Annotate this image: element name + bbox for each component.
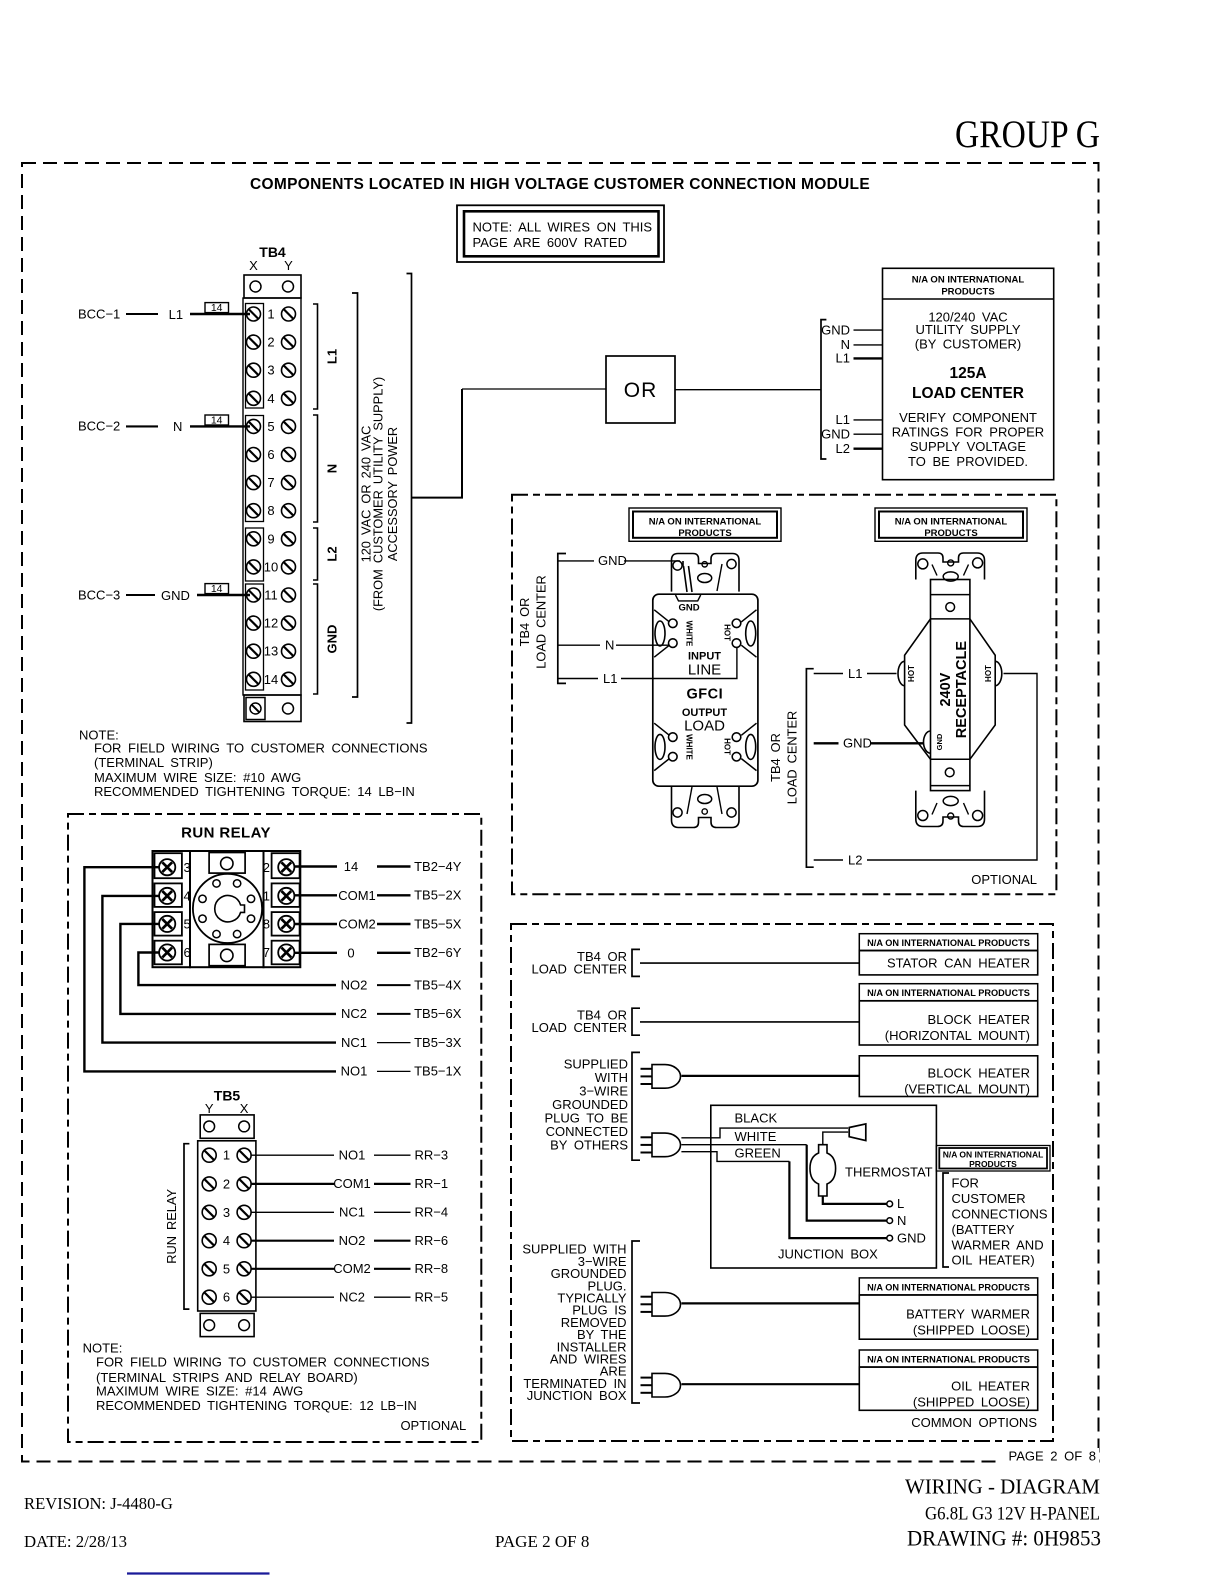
wire TB5 NC1 to RR-4 — [251, 1205, 448, 1220]
wire bracket to OR box — [412, 389, 607, 498]
svg-text:RECOMMENDED TIGHTENING TORQUE:: RECOMMENDED TIGHTENING TORQUE: 12 LB−IN — [96, 1398, 417, 1413]
wire black — [681, 1111, 848, 1138]
svg-text:LOAD CENTER: LOAD CENTER — [532, 962, 627, 977]
svg-text:COM2: COM2 — [338, 917, 376, 932]
svg-text:X: X — [249, 258, 258, 273]
wire TB5 COM1 to RR-1 — [251, 1176, 448, 1191]
svg-text:WHITE: WHITE — [685, 734, 694, 760]
svg-text:N/A ON INTERNATIONAL PRODUCTS: N/A ON INTERNATIONAL PRODUCTS — [867, 938, 1030, 948]
svg-text:MAXIMUM WIRE SIZE: #10 AWG: MAXIMUM WIRE SIZE: #10 AWG — [94, 770, 301, 785]
svg-text:L1: L1 — [848, 666, 862, 681]
svg-text:6: 6 — [267, 447, 274, 462]
N/A international box (battery warmer oil heater) — [936, 1146, 1050, 1172]
svg-text:14: 14 — [211, 583, 223, 595]
svg-text:6: 6 — [223, 1290, 230, 1305]
bracket RUN RELAY (TB5) — [164, 1144, 189, 1309]
svg-text:STATOR CAN HEATER: STATOR CAN HEATER — [887, 956, 1030, 971]
common options section dashed box — [511, 924, 1053, 1441]
svg-text:COM1: COM1 — [333, 1176, 371, 1191]
wire RR-3 loop to NO1 — [84, 867, 336, 1071]
svg-text:240V: 240V — [938, 672, 954, 706]
label row NC2 to TB5-6X — [341, 1006, 462, 1021]
svg-text:NO2: NO2 — [339, 1233, 366, 1248]
svg-text:2: 2 — [267, 335, 274, 350]
wire relay COM1 to TB5-2X — [294, 888, 462, 903]
svg-text:UTILITY SUPPLY: UTILITY SUPPLY — [915, 322, 1020, 337]
svg-text:0: 0 — [347, 946, 354, 961]
svg-text:(BATTERY: (BATTERY — [952, 1222, 1015, 1237]
svg-text:THERMOSTAT: THERMOSTAT — [845, 1165, 933, 1180]
svg-text:1: 1 — [223, 1148, 230, 1163]
svg-text:BLOCK HEATER: BLOCK HEATER — [928, 1066, 1030, 1081]
horn element — [823, 1124, 866, 1145]
svg-text:OPTIONAL: OPTIONAL — [971, 872, 1037, 887]
wire plug P4 to oil heater — [681, 1383, 859, 1385]
svg-text:TB5: TB5 — [214, 1088, 241, 1104]
battery warmer box — [859, 1278, 1037, 1339]
svg-text:NO1: NO1 — [341, 1064, 368, 1079]
svg-text:HOT: HOT — [723, 624, 732, 641]
svg-text:NC2: NC2 — [339, 1290, 365, 1305]
wire RR-6 loop to NO2 — [138, 953, 336, 986]
wire OR box to load center — [675, 389, 821, 391]
svg-text:DRAWING #: 0H9853: DRAWING #: 0H9853 — [907, 1526, 1101, 1551]
note supplied with 3-wire plug — [544, 1052, 640, 1160]
svg-text:BATTERY WARMER: BATTERY WARMER — [906, 1307, 1030, 1322]
svg-text:8: 8 — [267, 503, 274, 518]
svg-text:N/A ON INTERNATIONAL PRODUCTS: N/A ON INTERNATIONAL PRODUCTS — [867, 1282, 1030, 1292]
svg-text:NC2: NC2 — [341, 1006, 367, 1021]
outer dashed border — [22, 163, 1099, 1462]
svg-text:(SHIPPED LOOSE): (SHIPPED LOOSE) — [913, 1323, 1030, 1338]
svg-text:RR−6: RR−6 — [415, 1233, 449, 1248]
footer titles — [905, 1475, 1101, 1551]
block heater horizontal box — [859, 984, 1037, 1045]
svg-text:TB5−4X: TB5−4X — [414, 977, 462, 992]
svg-text:FOR: FOR — [952, 1176, 979, 1191]
svg-text:TB4 OR: TB4 OR — [768, 733, 783, 782]
wire L2 to 240V — [814, 674, 1037, 868]
svg-text:PAGE 2 OF 8: PAGE 2 OF 8 — [495, 1532, 589, 1551]
svg-text:NOTE: ALL WIRES ON THIS: NOTE: ALL WIRES ON THIS — [473, 220, 653, 235]
bracket TB4 or load center (GFCI) — [517, 554, 566, 684]
svg-text:GFCI: GFCI — [686, 687, 723, 703]
svg-text:WIRING - DIAGRAM: WIRING - DIAGRAM — [905, 1475, 1100, 1499]
GFCI device — [653, 554, 758, 828]
svg-text:NOTE:: NOTE: — [83, 1341, 123, 1356]
svg-text:SUPPLY VOLTAGE: SUPPLY VOLTAGE — [910, 439, 1027, 454]
label PAGE 2 OF 8 (border) — [1000, 1448, 1099, 1466]
svg-text:TB5−5X: TB5−5X — [414, 916, 462, 931]
svg-text:BLACK: BLACK — [735, 1111, 778, 1126]
svg-text:RR−1: RR−1 — [415, 1176, 449, 1191]
svg-text:N/A ON INTERNATIONAL PRODUCTS: N/A ON INTERNATIONAL PRODUCTS — [867, 988, 1030, 998]
svg-text:N: N — [173, 419, 182, 434]
wire L1 to 240V — [814, 666, 897, 681]
wire GND to GFCI — [558, 553, 692, 592]
svg-text:FOR FIELD WIRING TO CUSTOMER C: FOR FIELD WIRING TO CUSTOMER CONNECTIONS — [94, 741, 428, 756]
run relay TB5 section dashed box — [68, 814, 481, 1442]
svg-text:5: 5 — [267, 419, 274, 434]
svg-text:OIL HEATER: OIL HEATER — [951, 1379, 1030, 1394]
note field wiring TB5 — [83, 1341, 430, 1414]
svg-text:L: L — [897, 1196, 904, 1211]
load center box — [883, 268, 1054, 479]
svg-text:RECOMMENDED TIGHTENING TORQUE:: RECOMMENDED TIGHTENING TORQUE: 14 LB−IN — [94, 784, 415, 799]
svg-text:4: 4 — [223, 1233, 230, 1248]
svg-text:VERIFY COMPONENT: VERIFY COMPONENT — [899, 410, 1037, 425]
svg-text:1: 1 — [267, 307, 274, 322]
svg-text:3: 3 — [184, 860, 191, 875]
svg-text:12: 12 — [264, 616, 278, 631]
svg-text:N: N — [897, 1213, 906, 1228]
N/A international box (GFCI) — [629, 508, 781, 541]
wire relay 0 to TB2-6Y — [294, 945, 462, 960]
svg-text:PRODUCTS: PRODUCTS — [678, 528, 731, 539]
bracket TB4 or load center (240V) — [768, 669, 814, 868]
svg-text:FOR FIELD WIRING TO CUSTOMER C: FOR FIELD WIRING TO CUSTOMER CONNECTIONS — [96, 1355, 430, 1370]
svg-text:GND: GND — [161, 588, 190, 603]
svg-text:GND: GND — [678, 603, 699, 614]
wire RR-4 loop to NC1 — [102, 896, 336, 1043]
svg-text:GROUP G: GROUP G — [955, 112, 1100, 156]
svg-text:11: 11 — [264, 588, 278, 603]
svg-text:GND: GND — [935, 733, 944, 750]
bracket 120/240 VAC supply — [352, 293, 400, 697]
svg-text:GND: GND — [897, 1230, 926, 1245]
wire relay COM2 to TB5-5X — [294, 916, 462, 931]
wire N to GFCI — [558, 638, 669, 653]
svg-text:LOAD CENTER: LOAD CENTER — [534, 575, 549, 669]
label RUN RELAY — [181, 825, 271, 842]
node group brackets L1 N L2 GND — [313, 304, 340, 694]
svg-text:L1: L1 — [603, 671, 617, 686]
note for customer connections — [943, 1173, 1048, 1268]
plug P3 — [641, 1293, 681, 1317]
label OPTIONAL (relay section) — [400, 1418, 466, 1433]
svg-text:REVISION: J-4480-G: REVISION: J-4480-G — [24, 1494, 173, 1513]
svg-text:GND: GND — [843, 736, 872, 751]
svg-text:14: 14 — [344, 859, 358, 874]
svg-text:(BY CUSTOMER): (BY CUSTOMER) — [915, 336, 1022, 351]
svg-text:14: 14 — [211, 302, 223, 314]
svg-text:5: 5 — [184, 917, 191, 932]
svg-text:RR−8: RR−8 — [415, 1261, 449, 1276]
svg-text:GND: GND — [598, 553, 627, 568]
svg-text:HOT: HOT — [723, 738, 732, 755]
svg-text:(HORIZONTAL MOUNT): (HORIZONTAL MOUNT) — [885, 1028, 1030, 1043]
note box 600V — [457, 205, 664, 262]
thermostat — [810, 1145, 933, 1204]
svg-text:LOAD: LOAD — [684, 718, 725, 735]
svg-text:L2: L2 — [325, 546, 340, 561]
svg-text:G6.8L G3 12V H-PANEL: G6.8L G3 12V H-PANEL — [925, 1504, 1100, 1525]
footer revision date page — [24, 1494, 589, 1551]
load center stub wires GND N L1 L1 GND L2 — [821, 322, 882, 456]
svg-text:7: 7 — [263, 945, 270, 960]
title GROUP G — [955, 112, 1100, 156]
relay RR octal socket — [153, 851, 301, 967]
svg-text:N: N — [325, 464, 340, 473]
wire BCC-3 to TB4-11X — [78, 583, 250, 603]
terminal block TB4 — [243, 244, 301, 722]
svg-text:RR−4: RR−4 — [415, 1205, 449, 1220]
svg-text:TB5−2X: TB5−2X — [414, 888, 462, 903]
wire GND to 240V — [814, 736, 924, 751]
wire RR-5 loop to NC2 — [120, 924, 336, 1014]
svg-text:RUN RELAY: RUN RELAY — [164, 1189, 179, 1264]
svg-text:3: 3 — [223, 1205, 230, 1220]
svg-text:HOT: HOT — [907, 665, 916, 682]
wire TB4 to stator can heater — [532, 949, 860, 977]
svg-text:TB5−1X: TB5−1X — [414, 1064, 462, 1079]
svg-text:PRODUCTS: PRODUCTS — [969, 1159, 1017, 1169]
svg-text:RR−5: RR−5 — [415, 1290, 449, 1305]
svg-text:RECEPTACLE: RECEPTACLE — [954, 641, 970, 739]
svg-text:(FROM CUSTOMER UTILITY SUPPLY): (FROM CUSTOMER UTILITY SUPPLY) — [371, 377, 386, 611]
plug P1 — [641, 1065, 681, 1089]
svg-text:PAGE 2 OF 8: PAGE 2 OF 8 — [1008, 1449, 1096, 1464]
GFCI receptacle section dashed box — [512, 495, 1056, 895]
svg-text:13: 13 — [264, 644, 278, 659]
bracket load center — [821, 320, 826, 459]
page title — [250, 176, 870, 193]
svg-text:N: N — [605, 638, 614, 653]
svg-text:X: X — [240, 1101, 249, 1116]
wire BCC-2 to TB4-5X — [78, 415, 250, 435]
svg-text:4: 4 — [267, 391, 274, 406]
svg-text:LOAD CENTER: LOAD CENTER — [532, 1020, 627, 1035]
svg-text:14: 14 — [211, 415, 223, 427]
svg-text:PRODUCTS: PRODUCTS — [924, 528, 977, 539]
svg-text:14: 14 — [264, 672, 278, 687]
svg-text:OIL HEATER): OIL HEATER) — [952, 1253, 1035, 1268]
svg-text:OPTIONAL: OPTIONAL — [400, 1418, 466, 1433]
wire green — [681, 1146, 886, 1239]
wire plug P3 to battery warmer — [681, 1302, 859, 1304]
terminals L N GND — [887, 1196, 926, 1245]
svg-text:BCC−2: BCC−2 — [78, 419, 120, 434]
svg-text:TB5−3X: TB5−3X — [414, 1035, 462, 1050]
svg-text:2: 2 — [263, 860, 270, 875]
svg-text:DATE: 2/28/13: DATE: 2/28/13 — [24, 1532, 127, 1551]
svg-text:9: 9 — [267, 531, 274, 546]
svg-text:ACCESSORY POWER: ACCESSORY POWER — [385, 427, 400, 561]
svg-text:L1: L1 — [836, 351, 850, 366]
svg-text:L2: L2 — [836, 441, 850, 456]
N/A international box (240V receptacle) — [875, 508, 1027, 541]
wire TB5 NO2 to RR-6 — [251, 1233, 448, 1248]
svg-text:NC1: NC1 — [339, 1205, 365, 1220]
wire plug P1 to block heater vertical — [681, 1075, 859, 1077]
svg-text:125A: 125A — [949, 365, 986, 382]
svg-text:GND: GND — [821, 322, 850, 337]
svg-text:5: 5 — [223, 1261, 230, 1276]
svg-text:RUN RELAY: RUN RELAY — [181, 825, 271, 842]
svg-text:CONNECTIONS: CONNECTIONS — [952, 1207, 1048, 1222]
svg-text:GND: GND — [821, 427, 850, 442]
svg-text:TB5−6X: TB5−6X — [414, 1006, 462, 1021]
svg-text:L1: L1 — [169, 307, 183, 322]
240V receptacle device — [898, 553, 1002, 827]
svg-text:GND: GND — [325, 625, 340, 654]
svg-text:TB4 OR: TB4 OR — [517, 598, 532, 647]
label row NO2 to TB5-4X — [341, 977, 462, 992]
bracket accessory power feed — [407, 274, 412, 724]
svg-text:L2: L2 — [848, 852, 862, 867]
wire relay 14 to TB2-4Y — [294, 859, 462, 874]
svg-text:Y: Y — [205, 1101, 214, 1116]
svg-text:BLOCK HEATER: BLOCK HEATER — [928, 1012, 1030, 1027]
plug P4 — [641, 1373, 681, 1397]
svg-text:MAXIMUM WIRE SIZE: #14 AWG: MAXIMUM WIRE SIZE: #14 AWG — [96, 1384, 303, 1399]
svg-text:N/A ON INTERNATIONAL: N/A ON INTERNATIONAL — [895, 517, 1008, 528]
note field wiring TB4 — [79, 728, 428, 800]
wire BCC-1 to TB4-1X — [78, 302, 250, 322]
svg-text:L1: L1 — [325, 349, 340, 364]
svg-text:NO2: NO2 — [341, 977, 368, 992]
OR box — [606, 356, 675, 423]
svg-text:(TERMINAL STRIP): (TERMINAL STRIP) — [94, 755, 213, 770]
wire TB5 NO1 to RR-3 — [251, 1148, 448, 1163]
svg-text:RR−3: RR−3 — [415, 1148, 449, 1163]
svg-text:WARMER AND: WARMER AND — [952, 1237, 1044, 1252]
svg-text:CUSTOMER: CUSTOMER — [952, 1191, 1026, 1206]
svg-text:1: 1 — [263, 889, 270, 904]
svg-text:PAGE ARE 600V RATED: PAGE ARE 600V RATED — [473, 235, 627, 250]
svg-text:4: 4 — [184, 889, 191, 904]
svg-text:NC1: NC1 — [341, 1035, 367, 1050]
svg-text:8: 8 — [263, 917, 270, 932]
wire L1 to GFCI — [558, 647, 737, 685]
svg-text:LOAD CENTER: LOAD CENTER — [785, 711, 800, 805]
wire TB5 NC2 to RR-5 — [251, 1290, 448, 1305]
svg-text:BCC−3: BCC−3 — [78, 587, 120, 602]
svg-text:HOT: HOT — [984, 665, 993, 682]
wire white — [681, 1129, 886, 1221]
svg-text:Y: Y — [284, 258, 293, 273]
svg-text:(VERTICAL MOUNT): (VERTICAL MOUNT) — [904, 1082, 1030, 1097]
footer blue rule — [127, 1572, 270, 1574]
svg-text:RATINGS FOR PROPER: RATINGS FOR PROPER — [892, 425, 1044, 440]
svg-text:TB2−6Y: TB2−6Y — [414, 945, 462, 960]
oil heater box — [859, 1350, 1037, 1410]
svg-text:6: 6 — [184, 945, 191, 960]
label row NC1 to TB5-3X — [341, 1035, 462, 1050]
label OPTIONAL (GFCI section) — [971, 872, 1037, 887]
svg-text:JUNCTION BOX: JUNCTION BOX — [527, 1388, 627, 1403]
svg-text:10: 10 — [264, 559, 278, 574]
svg-text:WHITE: WHITE — [735, 1129, 777, 1144]
label row NO1 to TB5-1X — [341, 1064, 462, 1079]
note supplied with plug removed — [522, 1241, 640, 1403]
svg-text:OR: OR — [624, 379, 658, 402]
svg-text:LINE: LINE — [688, 662, 721, 679]
junction box — [711, 1105, 937, 1268]
svg-text:COMPONENTS LOCATED IN HIGH VOL: COMPONENTS LOCATED IN HIGH VOLTAGE CUSTO… — [250, 176, 870, 193]
svg-text:3: 3 — [267, 363, 274, 378]
stator can heater box — [859, 934, 1037, 975]
plug P2 — [641, 1133, 681, 1157]
svg-text:NO1: NO1 — [339, 1148, 366, 1163]
svg-text:GREEN: GREEN — [735, 1146, 781, 1161]
svg-text:COMMON OPTIONS: COMMON OPTIONS — [911, 1415, 1037, 1430]
wire TB4 to block heater horizontal — [532, 1008, 860, 1036]
svg-text:PRODUCTS: PRODUCTS — [941, 287, 994, 298]
svg-text:COM1: COM1 — [338, 888, 376, 903]
svg-text:N/A ON INTERNATIONAL PRODUCTS: N/A ON INTERNATIONAL PRODUCTS — [867, 1355, 1030, 1365]
wire TB5 COM2 to RR-8 — [251, 1261, 448, 1276]
svg-text:2: 2 — [223, 1176, 230, 1191]
svg-text:COM2: COM2 — [333, 1261, 371, 1276]
svg-text:LOAD CENTER: LOAD CENTER — [912, 385, 1024, 402]
svg-text:TO BE PROVIDED.: TO BE PROVIDED. — [908, 454, 1028, 469]
block heater vertical box — [859, 1056, 1037, 1097]
svg-text:(SHIPPED LOOSE): (SHIPPED LOOSE) — [913, 1395, 1030, 1410]
svg-text:N/A ON INTERNATIONAL: N/A ON INTERNATIONAL — [649, 517, 762, 528]
svg-text:BY OTHERS: BY OTHERS — [550, 1138, 628, 1153]
terminal block TB5 — [198, 1088, 256, 1337]
svg-text:TB2−4Y: TB2−4Y — [414, 859, 462, 874]
svg-text:TB4: TB4 — [259, 244, 286, 260]
svg-text:BCC−1: BCC−1 — [78, 306, 120, 321]
svg-text:7: 7 — [267, 475, 274, 490]
label COMMON OPTIONS — [911, 1415, 1037, 1430]
svg-text:JUNCTION BOX: JUNCTION BOX — [778, 1247, 878, 1262]
svg-text:WHITE: WHITE — [685, 621, 694, 647]
svg-text:L1: L1 — [836, 412, 850, 427]
svg-text:N/A ON INTERNATIONAL: N/A ON INTERNATIONAL — [912, 275, 1025, 286]
